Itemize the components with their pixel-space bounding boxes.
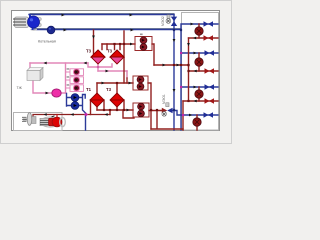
wire: pink bank header left	[65, 63, 67, 93]
boiler sub-box	[14, 113, 63, 131]
wire: branch x123	[123, 110, 134, 118]
wire: riser x110	[109, 110, 111, 115]
wire: U1 red line	[189, 37, 219, 39]
junction dots red	[103, 109, 105, 111]
svg-text:ТЖ: ТЖ	[17, 86, 23, 90]
svg-text:Т1: Т1	[86, 87, 92, 92]
arrows pink main y63.5	[44, 62, 87, 65]
svg-text:МЭО1: МЭО1	[162, 94, 166, 104]
consumer unit 2	[180, 50, 214, 73]
wire: U2 red line	[189, 70, 219, 72]
wire: blue pump loop left	[67, 94, 72, 107]
arrow on T1 header y83	[102, 82, 105, 85]
wire: T3c top stub	[116, 83, 118, 93]
consumer unit 3	[180, 84, 214, 103]
junction dots top	[173, 29, 175, 31]
wire: return main y114.5	[33, 115, 110, 121]
arrows return y114.5	[44, 113, 108, 116]
wire: T1 top stub	[96, 83, 98, 93]
wire: blue riser x174 down	[173, 30, 175, 130]
junction diamond on return at x86	[84, 113, 88, 117]
wire: loop2 exit drop	[148, 83, 151, 129]
heat exchanger T1	[86, 87, 104, 107]
burner device	[40, 116, 65, 127]
pump pair loop2	[129, 76, 149, 90]
arrows on riser x174	[173, 39, 176, 92]
wire: pink y71	[98, 70, 127, 72]
wire: T1 bottom stub	[96, 107, 98, 110]
valve ball on L2	[47, 26, 55, 34]
consumer unit 4	[182, 112, 213, 126]
wire: consumer red riser x190	[188, 38, 190, 101]
wire: U4 pump drop	[196, 115, 198, 130]
wire: hot drop x123 from main to y83	[123, 31, 125, 83]
MEO2 valve assembly	[161, 15, 177, 26]
wire: boiler feed x57	[56, 115, 58, 119]
wire: T1 left vertex drop	[90, 100, 92, 115]
wire: supply main L1 blue	[29, 14, 174, 16]
svg-text:Т3: Т3	[107, 48, 113, 53]
pump unit (boiler circulation pump)	[13, 15, 41, 30]
wire: U4 blue line	[173, 111, 219, 116]
wire: T3b top stubs	[115, 44, 121, 50]
svg-text:МЭО2: МЭО2	[161, 16, 165, 26]
wire: pink main y63.5	[30, 62, 88, 64]
wire: U3 pump drop	[198, 87, 200, 101]
tank	[27, 68, 43, 81]
wire: blue corner into consumer U1	[181, 24, 218, 30]
wire: U3 red line	[183, 100, 218, 102]
wire: blue loop right header	[79, 95, 86, 131]
pump pair loop1	[130, 34, 152, 51]
makeup pump ellipse	[52, 89, 61, 97]
wire: consumer blue riser x181	[180, 30, 182, 130]
pump pair loop3	[127, 103, 150, 117]
wire: T3c right vertex drop	[123, 100, 125, 110]
heat exchanger T3a	[86, 48, 105, 64]
wire: red drop from loop1	[152, 44, 154, 65]
wire: drop from pink y71	[126, 71, 128, 78]
consumers sub-box	[182, 13, 219, 131]
wire: U3 blue line	[181, 86, 218, 88]
arrow pink y71	[106, 70, 109, 73]
svg-text:Т3: Т3	[86, 48, 92, 53]
wire: U2 pump drop	[198, 53, 200, 71]
arrows on mains	[61, 14, 133, 32]
wire: tank out pink	[33, 81, 66, 93]
pink pump bank (3 pumps)	[66, 68, 84, 91]
wire: supply main L1 grey top edge	[30, 13, 174, 15]
svg-text:Т3: Т3	[106, 87, 112, 92]
wire: pink y67 branch	[88, 63, 112, 67]
wire: T1 right vertex drop	[103, 100, 105, 110]
wire: U2 blue line	[181, 52, 218, 54]
canvas panel	[12, 11, 220, 131]
wire: T1/T3 top header y83	[97, 82, 133, 84]
heat exchanger T3c	[106, 87, 124, 107]
wire: T3a top stubs	[102, 44, 107, 50]
wire: T3a bottom stub	[97, 64, 99, 71]
blue pump pair	[71, 94, 79, 110]
MEO1 valve assembly	[162, 94, 173, 116]
wire: main L2 grey top edge	[34, 28, 181, 30]
arrow on tank line	[46, 92, 49, 95]
wire: red y110 to loop3 and valve	[97, 109, 162, 112]
wire: drop x93.5 from main to T3a	[93, 30, 95, 55]
heat exchanger T3b	[107, 48, 124, 64]
wire: hot header y44	[102, 43, 135, 45]
wire: consumer red riser x183	[182, 101, 184, 130]
wire: U1 pump drop	[198, 24, 200, 38]
svg-text:Котельная: Котельная	[38, 39, 56, 43]
wire: valve drop x174	[173, 15, 175, 30]
fan	[22, 113, 36, 126]
arrows red y65	[163, 64, 180, 67]
consumer unit 1	[187, 21, 213, 46]
wire: branch x157 down to y129	[151, 110, 183, 129]
wire: red return y65	[154, 64, 189, 66]
wire: pink drop to tank	[29, 63, 31, 70]
wire: main L2 blue	[33, 29, 181, 31]
wire: T3c bottom stub	[116, 107, 118, 110]
